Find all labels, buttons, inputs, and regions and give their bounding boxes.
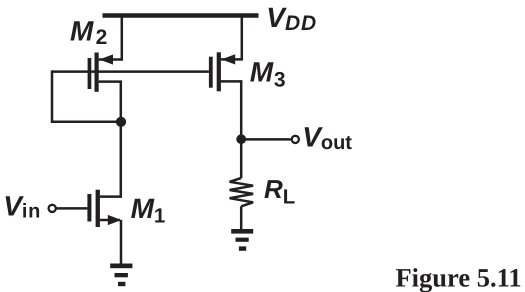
svg-text:Vin: Vin	[3, 191, 41, 223]
wire node to resistor top	[240, 139, 243, 178]
svg-text:M3: M3	[250, 57, 286, 92]
wire resistor bottom to ground	[240, 206, 243, 230]
transistor M3 gate bar	[209, 57, 213, 88]
wire M3 source to rail	[221, 17, 242, 59]
svg-text:Vout: Vout	[302, 121, 352, 154]
junction node B (output node)	[236, 134, 246, 144]
wire M2 drain down to M1 drain	[99, 82, 121, 197]
transistor M3 source arrow	[221, 54, 235, 64]
VDD rail	[103, 13, 259, 18]
transistor M1 source arrow	[108, 215, 122, 225]
svg-text:Figure 5.11: Figure 5.11	[396, 262, 522, 292]
terminal circle Vin	[49, 205, 56, 212]
svg-text:M2: M2	[70, 16, 107, 49]
transistor M3 channel bar	[217, 52, 221, 91]
terminal circle Vout	[292, 136, 299, 143]
svg-text:M1: M1	[131, 193, 166, 227]
transistor M1 gate bar	[87, 194, 91, 222]
wire Vin terminal to M1 gate	[57, 207, 88, 210]
junction node A (M2 drain / gate feedback)	[116, 117, 126, 127]
wire feedback loop	[52, 70, 121, 121]
ground symbol under M1	[110, 264, 132, 269]
ground symbol under RL	[231, 229, 253, 234]
wire M3 drain down to output node	[221, 81, 241, 138]
wire M2 source to rail	[99, 17, 122, 60]
wire M1 source to ground	[100, 220, 121, 265]
transistor M2 gate bar	[88, 58, 92, 89]
transistor M1 channel bar	[96, 190, 100, 227]
transistor M2 channel bar	[95, 53, 99, 92]
svg-text:VDD: VDD	[266, 2, 317, 35]
wire output node to Vout terminal	[241, 138, 291, 141]
resistor RL zigzag	[230, 178, 254, 206]
wire gate bus M2-M3	[52, 70, 209, 73]
svg-text:RL: RL	[264, 174, 295, 208]
transistor M2 source arrow	[99, 54, 113, 64]
